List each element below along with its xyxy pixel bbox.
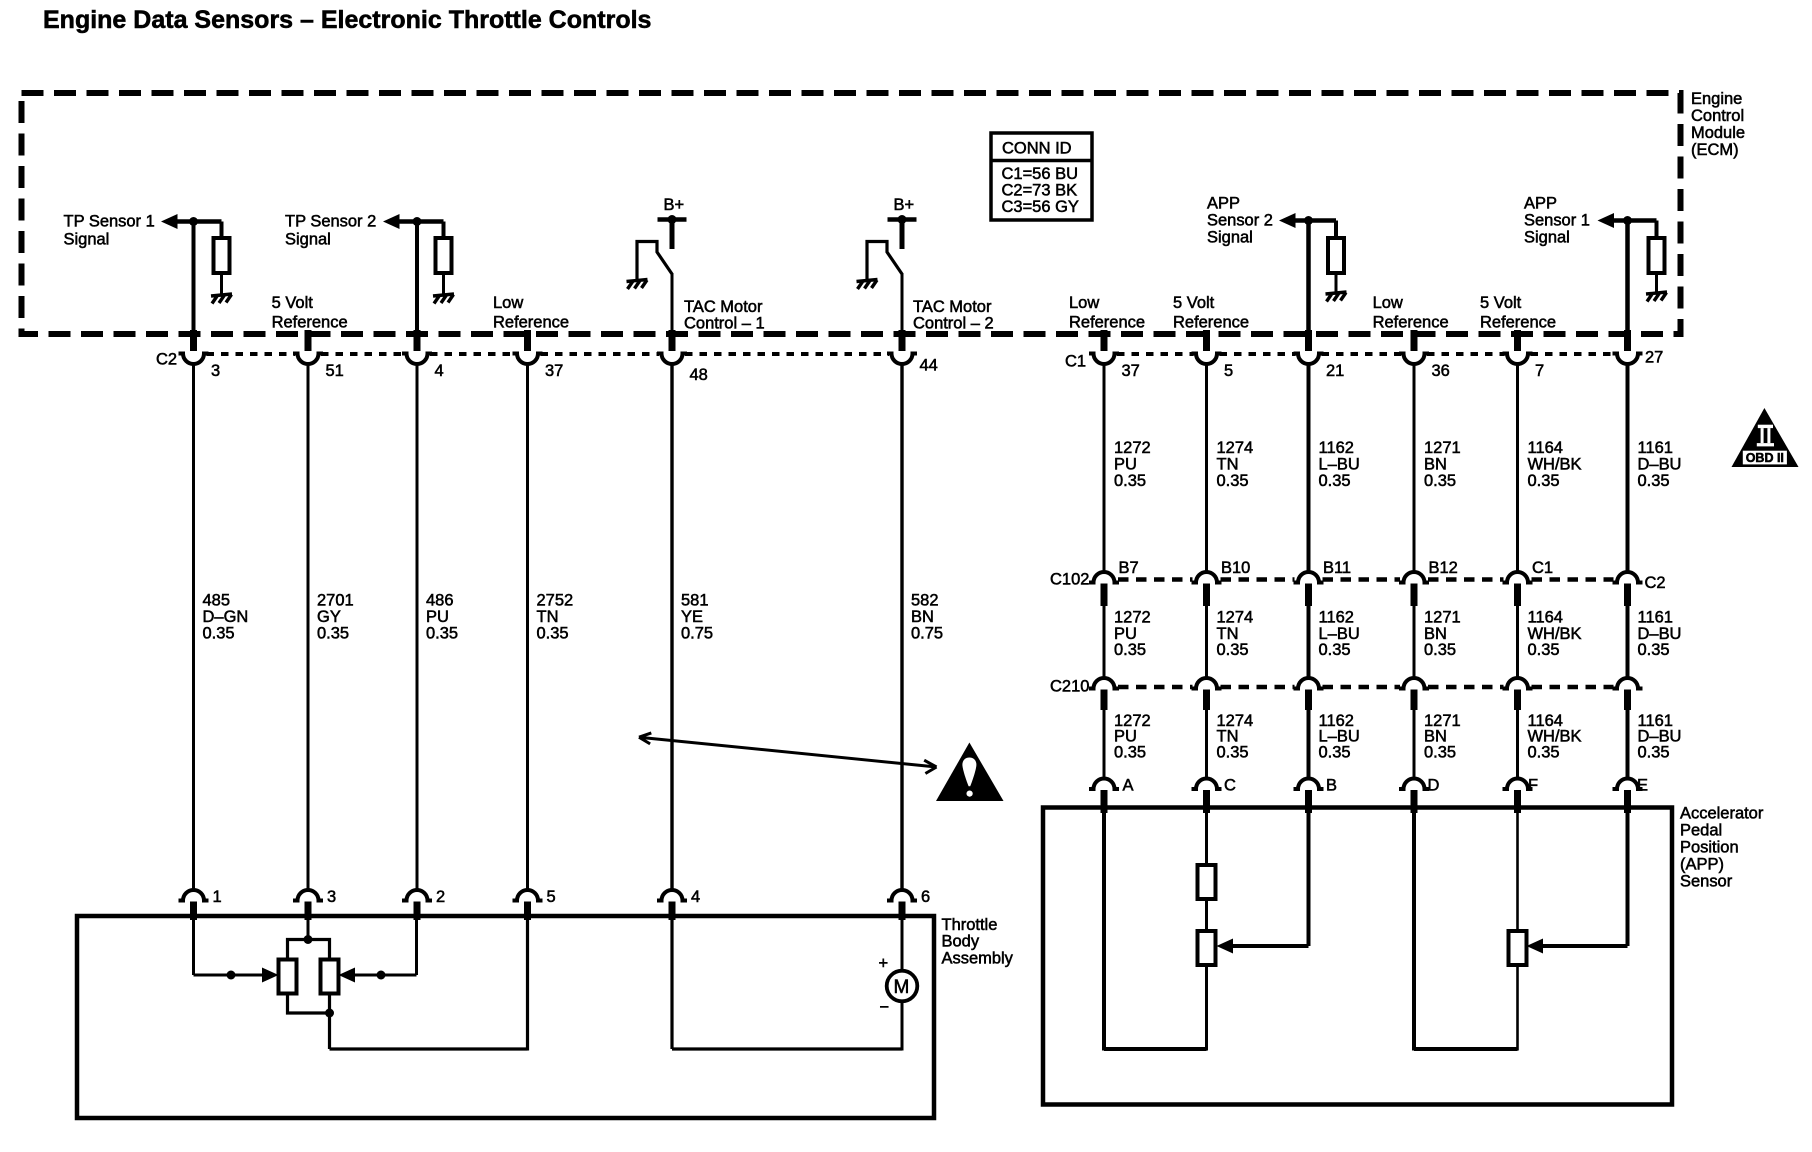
junction dot TP1 wiper [227, 971, 236, 980]
APP pot1 resistor lower (wiper target) [1198, 931, 1216, 965]
svg-text:Reference: Reference [1373, 312, 1449, 331]
svg-text:Signal: Signal [1207, 227, 1253, 246]
ECM pin 27 stub [1624, 330, 1631, 351]
APP sensor pin B stub [1305, 790, 1312, 813]
ECM pin 4 stub [414, 330, 421, 351]
C210 dashed line segment [1118, 685, 1193, 690]
junction dot APP Sensor 2 [1304, 216, 1313, 225]
connector C210 stub col 1274 [1203, 690, 1210, 711]
driver switch TAC 1 [637, 242, 672, 280]
svg-text:4: 4 [435, 361, 444, 380]
driver switch TAC 2 [867, 242, 902, 280]
svg-text:3: 3 [211, 361, 220, 380]
wire TP pot supply from pin 3 [307, 919, 310, 941]
TP2 wiper arrowhead [339, 968, 356, 983]
svg-text:1: 1 [213, 887, 222, 906]
svg-text:C102: C102 [1050, 569, 1089, 588]
wire circuit 1272 segment C210 to APP sensor [1103, 709, 1106, 779]
wire APP Sensor 2 horizontal [1293, 218, 1336, 223]
ECM pin 7 connector cup [1503, 354, 1533, 365]
C210 dashed line segment [1532, 685, 1614, 690]
junction dot TP Sensor 2 [413, 217, 422, 226]
APP sensor pin F cup [1503, 779, 1533, 789]
svg-text:0.35: 0.35 [1114, 640, 1146, 659]
connector C210 stub col 1164 [1514, 690, 1521, 711]
svg-text:36: 36 [1432, 361, 1450, 380]
wire circuit 582 vertical [900, 364, 903, 891]
wire TP Sensor 2 horizontal [397, 219, 444, 224]
junction dot TP Sensor 1 [189, 217, 198, 226]
throttle body assembly box [77, 916, 934, 1118]
wire resistor to ground TP Sensor 1 [220, 273, 223, 294]
svg-text:0.35: 0.35 [1217, 742, 1249, 761]
APP pot1 wiper arrowhead [1217, 939, 1234, 954]
TP pot bottom bracket [288, 994, 330, 1014]
connector C102 pin B11 cup [1294, 572, 1324, 583]
resistor APP Sensor 2 [1328, 238, 1344, 273]
wire circuit 1164 segment C102 to C210 [1516, 605, 1519, 679]
wire APP pin C to resistor [1205, 812, 1208, 866]
ECM pin 37 connector cup [513, 354, 543, 365]
connector C102 pin B11 stub [1305, 584, 1312, 607]
throttle body pin 2 stub [414, 902, 421, 921]
ECM connector dotted line segment [1427, 352, 1505, 356]
wire circuit 2701 vertical [307, 364, 310, 891]
svg-text:0.35: 0.35 [1528, 742, 1560, 761]
callout arrowhead left [639, 733, 651, 744]
ground TP Sensor 2 pull-up [433, 294, 454, 304]
wire APP pot1 mid [1205, 899, 1208, 932]
wire pin 5 drop [526, 919, 529, 1051]
wire APP Sensor 1 horizontal [1612, 218, 1657, 223]
svg-text:0.35: 0.35 [1638, 640, 1670, 659]
APP sensor pin C cup [1192, 779, 1222, 789]
wire circuit 1272 segment ECM to C102 [1103, 364, 1106, 572]
junction dot TP pot bottom [325, 1009, 334, 1018]
throttle body pin 6 stub [899, 902, 906, 921]
ECM connector dotted line segment [430, 352, 515, 356]
svg-text:Sensor: Sensor [1680, 871, 1733, 890]
callout arrow line [639, 737, 937, 767]
APP pot1 resistor upper [1198, 865, 1216, 899]
svg-text:(ECM): (ECM) [1691, 140, 1739, 159]
svg-text:CONN ID: CONN ID [1002, 138, 1072, 157]
APP sensor pin A stub [1101, 790, 1108, 813]
svg-text:C1: C1 [1065, 351, 1086, 370]
wire APP pin D drop [1412, 812, 1416, 1051]
pull-up resistor TP Sensor 2 [436, 238, 452, 273]
wire APP Sensor 1 signal drop to pin [1625, 221, 1630, 334]
wire TP Sensor 2 signal drop to pin [415, 222, 419, 334]
svg-text:7: 7 [1535, 361, 1544, 380]
ECM pin 44 stub [899, 330, 906, 351]
wire circuit 1162 segment ECM to C102 [1307, 364, 1311, 572]
APP sensor pin D stub [1411, 790, 1418, 813]
ECM pin 37 stub [524, 330, 531, 351]
B+ terminal bar TAC 1 [658, 217, 687, 222]
APP sensor pin E stub [1624, 790, 1631, 813]
wire resistor to ground APP Sensor 1 [1655, 273, 1658, 292]
wire TAC motor control 1 drop from pin 4 [670, 919, 673, 1049]
svg-text:21: 21 [1326, 361, 1344, 380]
connector C102 pin B12 cup [1399, 572, 1429, 583]
svg-text:Engine Data Sensors – Electron: Engine Data Sensors – Electronic Throttl… [43, 6, 651, 34]
throttle motor M1 [887, 971, 918, 1002]
throttle body pin 5 cup [513, 890, 543, 900]
wire resistor to ground TP Sensor 2 [442, 273, 445, 294]
ECM pin 3 connector cup [179, 354, 209, 365]
B+ stem TAC 1 [670, 221, 675, 249]
ECM module boundary (dashed box) [22, 93, 1681, 334]
ECM pin 48 stub [669, 330, 676, 351]
connector C102 pin B7 cup [1089, 572, 1119, 583]
svg-text:B12: B12 [1429, 558, 1458, 577]
TP1 wiper arrowhead [262, 968, 279, 983]
connector C102 pin C1 cup [1503, 572, 1533, 583]
ground TP Sensor 1 pull-up [211, 294, 232, 304]
svg-text:0.35: 0.35 [1217, 471, 1249, 490]
svg-text:C210: C210 [1050, 676, 1089, 695]
wire APP pin A drop [1102, 812, 1106, 1051]
svg-text:F: F [1528, 775, 1538, 794]
svg-text:48: 48 [690, 365, 708, 384]
svg-text:0.35: 0.35 [1424, 742, 1456, 761]
svg-text:Reference: Reference [1480, 312, 1556, 331]
svg-text:Signal: Signal [1524, 227, 1570, 246]
svg-text:OBD II: OBD II [1746, 451, 1784, 465]
svg-text:0.35: 0.35 [1424, 640, 1456, 659]
svg-text:0.35: 0.35 [317, 623, 349, 642]
ground TAC 2 driver [857, 280, 878, 290]
ECM pin 21 connector cup [1294, 354, 1324, 365]
ECM pin 21 stub [1305, 330, 1312, 351]
ECM connector dotted line segment [541, 352, 660, 356]
ECM connector dotted line segment [1322, 352, 1402, 356]
wire TP pot low ref drop [328, 1013, 331, 1049]
C210 dashed line segment [1221, 685, 1295, 690]
C102 dashed line segment [1118, 577, 1193, 582]
wire APP pot2 lower drop [1516, 965, 1519, 1051]
svg-text:0.35: 0.35 [1638, 742, 1670, 761]
svg-text:Reference: Reference [1069, 312, 1145, 331]
wire pull-up drop TP Sensor 1 [220, 222, 224, 239]
ECM pin 36 connector cup [1399, 354, 1429, 365]
svg-text:0.35: 0.35 [1638, 471, 1670, 490]
svg-text:3: 3 [327, 887, 336, 906]
wire TP sensor 2 wiper from pin 2 [415, 919, 418, 975]
svg-text:Control – 1: Control – 1 [684, 313, 765, 332]
throttle body pin 4 cup [657, 890, 687, 900]
svg-text:M: M [894, 977, 910, 998]
svg-text:Low: Low [1373, 293, 1404, 312]
CONN ID table box [991, 133, 1092, 220]
throttle body pin 3 cup [293, 890, 323, 900]
svg-text:C1: C1 [1532, 558, 1553, 577]
wire motor to bottom link [901, 1002, 904, 1051]
wire circuit 1274 segment ECM to C102 [1205, 364, 1208, 572]
warning triangle with exclamation [936, 743, 1004, 802]
svg-text:C2: C2 [156, 349, 177, 368]
svg-text:0.35: 0.35 [1114, 471, 1146, 490]
C210 dashed line segment [1323, 685, 1401, 690]
junction dot TP pot top [304, 935, 313, 944]
connector C210 cup col 1272 [1089, 678, 1119, 689]
ECM pin 5 stub [1203, 330, 1210, 351]
svg-text:TP Sensor 2: TP Sensor 2 [285, 211, 376, 230]
svg-text:0.35: 0.35 [1528, 640, 1560, 659]
svg-text:0.35: 0.35 [1528, 471, 1560, 490]
connector C210 stub col 1162 [1305, 690, 1312, 711]
svg-text:27: 27 [1645, 347, 1663, 366]
wire TP Sensor 1 horizontal [175, 219, 222, 224]
throttle body pin 5 stub [524, 902, 531, 921]
APP sensor pin F stub [1514, 790, 1521, 813]
throttle body pin 1 cup [179, 890, 209, 900]
svg-text:Reference: Reference [272, 312, 348, 331]
C102 dashed line segment [1323, 577, 1401, 582]
throttle body pin 1 stub [190, 902, 197, 921]
connector C102 pin B7 stub [1101, 584, 1108, 607]
wire APP pin B wiper [1307, 812, 1311, 946]
TP Sensor 2 signal arrowhead [383, 214, 400, 229]
connector C102 pin B12 stub [1411, 584, 1418, 607]
svg-text:0.75: 0.75 [681, 623, 713, 642]
wire circuit 1274 segment C210 to APP sensor [1205, 709, 1208, 779]
ECM pin 51 connector cup [293, 354, 323, 365]
svg-text:2: 2 [436, 887, 445, 906]
connector C210 cup col 1161 [1613, 678, 1643, 689]
ECM connector dotted line segment [207, 352, 296, 356]
svg-text:D: D [1428, 775, 1440, 794]
connector C102 pin C2 stub [1624, 584, 1631, 607]
svg-text:0.75: 0.75 [911, 623, 943, 642]
wire circuit 1161 segment C102 to C210 [1626, 605, 1630, 679]
svg-text:B7: B7 [1119, 558, 1139, 577]
wire APP pin F to resistor [1516, 812, 1519, 932]
svg-text:B11: B11 [1323, 558, 1351, 577]
svg-text:5 Volt: 5 Volt [1480, 293, 1522, 312]
wire TAC 1 to pin [671, 273, 674, 333]
svg-text:B+: B+ [894, 195, 915, 214]
wire APP pin E wiper [1626, 812, 1630, 946]
connector C210 cup col 1271 [1399, 678, 1429, 689]
connector C210 cup col 1164 [1503, 678, 1533, 689]
resistor APP Sensor 1 [1649, 238, 1665, 273]
wire circuit 1162 segment C102 to C210 [1307, 605, 1311, 679]
C210 dashed line segment [1428, 685, 1504, 690]
wire TAC motor bottom link [672, 1047, 902, 1050]
ECM pin 4 connector cup [402, 354, 432, 365]
wire pull resistor drop APP Sensor 2 [1334, 221, 1338, 239]
wire APP pot1 lower drop [1205, 965, 1208, 1051]
svg-text:Signal: Signal [285, 229, 331, 248]
APP sensor pin D cup [1399, 779, 1429, 789]
wire pull resistor drop APP Sensor 1 [1655, 221, 1659, 239]
svg-text:Low: Low [1069, 293, 1100, 312]
svg-text:−: − [880, 997, 890, 1016]
APP sensor pin C stub [1203, 790, 1210, 813]
svg-text:37: 37 [1122, 361, 1140, 380]
svg-text:0.35: 0.35 [1424, 471, 1456, 490]
C102 dashed line segment [1428, 577, 1504, 582]
wire TP Sensor 1 signal drop to pin [192, 222, 196, 334]
B+ terminal bar TAC 2 [888, 217, 917, 222]
svg-text:B+: B+ [664, 195, 685, 214]
svg-text:0.35: 0.35 [1319, 471, 1351, 490]
svg-text:4: 4 [691, 887, 700, 906]
wire pin 6 to motor [901, 919, 904, 970]
wire circuit 1274 segment C102 to C210 [1205, 605, 1208, 679]
svg-text:51: 51 [326, 361, 344, 380]
throttle body pin 3 stub [305, 902, 312, 921]
callout arrowhead right [924, 760, 936, 773]
svg-text:C3=56 GY: C3=56 GY [1002, 197, 1079, 216]
ECM pin 7 stub [1514, 330, 1521, 351]
svg-text:C2: C2 [1645, 573, 1666, 592]
wire circuit 581 vertical [670, 364, 673, 891]
APP sensor pin A cup [1089, 779, 1119, 789]
junction dot APP Sensor 1 [1623, 216, 1632, 225]
connector C102 pin B10 stub [1203, 584, 1210, 607]
ECM pin 37 stub [1101, 330, 1108, 351]
wire circuit 1271 segment C210 to APP sensor [1413, 709, 1416, 779]
ground TAC 1 driver [627, 280, 648, 290]
TP sensor 1 resistor element [279, 960, 297, 994]
svg-text:0.35: 0.35 [426, 623, 458, 642]
wire pull-up drop TP Sensor 2 [442, 222, 446, 239]
svg-text:0.35: 0.35 [537, 623, 569, 642]
ground APP Sensor 1 [1646, 292, 1667, 302]
ECM pin 51 stub [305, 330, 312, 351]
connector C210 stub col 1161 [1624, 690, 1631, 711]
ECM pin 5 connector cup [1192, 354, 1222, 365]
svg-text:+: + [879, 953, 889, 972]
TP Sensor 1 signal arrowhead [161, 214, 178, 229]
svg-text:0.35: 0.35 [1217, 640, 1249, 659]
wire circuit 1271 segment ECM to C102 [1413, 364, 1416, 572]
CONN ID table divider [991, 159, 1092, 163]
connector C210 stub col 1271 [1411, 690, 1418, 711]
svg-text:Reference: Reference [493, 312, 569, 331]
svg-text:0.35: 0.35 [1319, 742, 1351, 761]
TP sensor 2 resistor element [321, 960, 339, 994]
connector C102 pin C1 stub [1514, 584, 1521, 607]
wire circuit 1161 segment C210 to APP sensor [1626, 709, 1630, 779]
svg-text:5 Volt: 5 Volt [272, 293, 314, 312]
ECM connector dotted line segment [1117, 352, 1194, 356]
ECM pin 3 stub [190, 330, 197, 351]
svg-text:0.35: 0.35 [203, 623, 235, 642]
svg-text:B10: B10 [1221, 558, 1250, 577]
ECM pin 44 connector cup [887, 354, 917, 365]
wire circuit 1164 segment C210 to APP sensor [1516, 709, 1519, 779]
ECM pin 36 stub [1411, 330, 1418, 351]
wire circuit 486 vertical [416, 364, 419, 891]
svg-text:0.35: 0.35 [1114, 742, 1146, 761]
wire TP pot low ref horizontal to pin 5 [330, 1047, 528, 1050]
APP sensor pin E cup [1613, 779, 1643, 789]
ECM connector dotted line segment [1531, 352, 1615, 356]
ECM pin 27 connector cup [1613, 354, 1643, 365]
svg-text:Signal: Signal [64, 229, 110, 248]
APP Sensor 2 signal arrowhead [1279, 213, 1296, 228]
ground APP Sensor 2 [1326, 292, 1347, 302]
ECM pin 48 connector cup [657, 354, 687, 365]
throttle body pin 4 stub [669, 902, 676, 921]
svg-text:37: 37 [545, 361, 563, 380]
svg-text:Low: Low [493, 293, 524, 312]
wire TP sensor 1 wiper from pin 1 [192, 919, 195, 975]
svg-text:5: 5 [1224, 361, 1233, 380]
junction dot TP2 wiper [377, 971, 386, 980]
svg-text:C: C [1224, 775, 1236, 794]
ECM connector dotted line segment [685, 352, 889, 356]
connector C102 pin B10 cup [1192, 572, 1222, 583]
wire APP Sensor 2 signal drop to pin [1306, 221, 1311, 334]
svg-text:6: 6 [921, 887, 930, 906]
connector C210 cup col 1162 [1294, 678, 1324, 689]
throttle body pin 6 cup [887, 890, 917, 900]
APP pot2 resistor (wiper target) [1509, 931, 1527, 965]
connector C210 stub col 1272 [1101, 690, 1108, 711]
svg-text:Reference: Reference [1173, 312, 1249, 331]
svg-text:B: B [1326, 775, 1337, 794]
wire APP pot1 bottom link [1104, 1047, 1207, 1051]
wire circuit 1272 segment C102 to C210 [1103, 605, 1106, 679]
APP sensor box [1043, 808, 1672, 1105]
APP pot2 wiper arrowhead [1527, 939, 1544, 954]
svg-text:5 Volt: 5 Volt [1173, 293, 1215, 312]
svg-text:E: E [1637, 775, 1648, 794]
wire circuit 1164 segment ECM to C102 [1516, 364, 1519, 572]
ECM connector dotted line segment [321, 352, 404, 356]
ECM pin 37 connector cup [1089, 354, 1119, 365]
wire resistor to ground APP Sensor 2 [1335, 273, 1338, 292]
svg-text:5: 5 [547, 887, 556, 906]
ECM connector dotted line segment [1220, 352, 1296, 356]
wire APP pot2 bottom link [1414, 1047, 1518, 1051]
svg-text:0.35: 0.35 [1319, 640, 1351, 659]
pull-up resistor TP Sensor 1 [214, 238, 230, 273]
throttle body pin 2 cup [402, 890, 432, 900]
TP pot top bracket [288, 940, 330, 960]
svg-text:Control – 2: Control – 2 [913, 313, 994, 332]
svg-text:A: A [1123, 775, 1135, 794]
wire circuit 1162 segment C210 to APP sensor [1307, 709, 1311, 779]
wire circuit 1271 segment C102 to C210 [1413, 605, 1416, 679]
svg-text:Assembly: Assembly [942, 948, 1014, 967]
connector C210 cup col 1274 [1192, 678, 1222, 689]
B+ stem TAC 2 [900, 221, 905, 249]
wire circuit 485 vertical [192, 364, 195, 891]
C102 dashed line segment [1221, 577, 1295, 582]
connector C102 pin C2 cup [1613, 572, 1643, 583]
svg-text:44: 44 [920, 355, 938, 374]
wire TAC 2 to pin [901, 273, 904, 333]
svg-text:TP Sensor 1: TP Sensor 1 [64, 211, 155, 230]
C102 dashed line segment [1532, 577, 1614, 582]
APP Sensor 1 signal arrowhead [1598, 213, 1615, 228]
APP sensor pin B cup [1294, 779, 1324, 789]
wire circuit 2752 vertical [526, 364, 529, 891]
wire circuit 1161 segment ECM to C102 [1626, 364, 1630, 572]
OBD II marker triangle [1732, 408, 1799, 467]
